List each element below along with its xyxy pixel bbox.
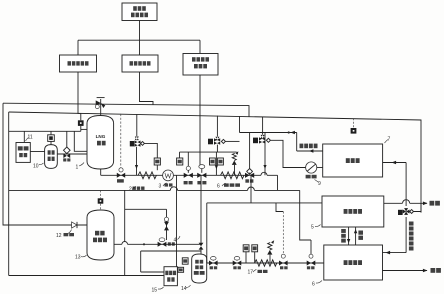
vessel: LNG storage tank xyxy=(87,116,114,170)
label: power generation xyxy=(431,268,441,273)
svg-text:11: 11 xyxy=(28,135,33,141)
wire: valve D feed line xyxy=(300,190,311,254)
wire: dashed drop to buffer tank instrument xyxy=(100,190,102,198)
wire: gauge to tank dome xyxy=(50,141,52,145)
svg-text:1: 1 xyxy=(76,165,79,171)
svg-text:6: 6 xyxy=(312,282,315,288)
instrument: compressor gauge A xyxy=(182,258,188,264)
valve: LNG outlet control valve V1 xyxy=(117,168,125,183)
wire: BOG left downcomer to buffer tank xyxy=(3,103,87,225)
label 6 xyxy=(312,281,322,288)
label 11 xyxy=(26,135,33,142)
label 7 xyxy=(385,137,391,144)
wire: LNG feed drop from pipe to CNG tank xyxy=(200,175,202,255)
valve: buffer outlet control valve V6 xyxy=(158,238,175,247)
heat exchanger: vaporizer coil 2 (water bath) xyxy=(221,172,244,179)
label: generator cooling water (vertical) xyxy=(409,222,414,251)
arrow: heating supply out xyxy=(422,202,428,204)
wire: LNG tank bottom outlet to pipe xyxy=(100,169,102,176)
wire: manifold drop to pipe with arrow xyxy=(215,152,218,175)
svg-text:14: 14 xyxy=(181,286,187,292)
wire: hot water branch drop with arrow to pipe xyxy=(263,133,266,176)
wire: controller bus horizontal xyxy=(78,39,200,41)
label 6-water bath vaporizer xyxy=(217,183,240,189)
pump: LNG booster pump P1 xyxy=(163,170,174,181)
valve: emergency shutoff valve V3 (safety controller) xyxy=(197,165,206,185)
wire hop: over gas-to-heating riser xyxy=(248,187,255,190)
valve: CNG tank inlet valve V7 xyxy=(199,243,204,250)
svg-text:17: 17 xyxy=(248,270,254,276)
label 2-vaporizer xyxy=(129,187,145,193)
label 14 xyxy=(181,285,191,292)
wire: compressor suction riser from pipe xyxy=(176,175,178,266)
instrument: gas-source actuator pilot (filled) xyxy=(78,120,84,126)
wire: compressor discharge line xyxy=(141,250,201,252)
box: temperature controller xyxy=(122,55,158,72)
svg-text:13: 13 xyxy=(75,255,81,261)
instrument: unloading tank gauge xyxy=(48,135,55,142)
box: generator set xyxy=(324,245,383,280)
wire: assembly1 diamond link to riser xyxy=(225,140,239,142)
wire: natural gas line between boxes xyxy=(347,227,350,245)
label: natural gas (vertical) xyxy=(341,229,346,243)
valve assembly: gas line control station PV1 xyxy=(208,116,225,145)
vessel: CNG purification booster tank xyxy=(192,254,207,283)
wire: bottom return line to compressor xyxy=(9,275,164,277)
valve: tank relief/vent valve xyxy=(95,98,105,109)
wire: pump discharge to tank xyxy=(317,167,323,169)
box: gas source controller xyxy=(60,55,97,72)
check valve: BOG inlet check xyxy=(72,222,77,228)
wire: gauge riser 2 xyxy=(254,252,256,263)
valve: chain upper valve V5 xyxy=(164,217,169,230)
wire: pneumatic valve riser xyxy=(66,131,68,147)
wire: temperature controller signal path xyxy=(140,72,154,105)
wire: branch manifold y209 xyxy=(125,208,167,210)
svg-text:7: 7 xyxy=(388,137,391,143)
label 13 xyxy=(75,255,87,261)
safety valve: vaporizer relief RV1 xyxy=(232,151,239,175)
safety valve: CNG relief RV2 xyxy=(267,240,274,263)
wire: header drop to CNG pipe xyxy=(206,203,208,263)
valve assembly: heating temper valve PV3 xyxy=(398,208,414,215)
valve: vaporizer outlet pneumatic valve V4 xyxy=(245,169,254,183)
wire: left main riser xyxy=(8,112,10,276)
wire: cooling water riser xyxy=(405,163,407,253)
svg-text:LNG: LNG xyxy=(96,134,106,139)
label 4 xyxy=(174,236,181,244)
wire hop: pipe over drop line xyxy=(261,172,267,175)
wire: assembly0 diamond to instrument branch xyxy=(144,143,157,158)
wire: heating supply line with hop xyxy=(384,202,422,204)
instrument: gauge pair PI4 xyxy=(218,158,224,165)
wire: pneumatic signal (dashed) to LNG outlet valve xyxy=(120,114,122,168)
instrument: compressor gauge B xyxy=(178,267,184,272)
label 5 xyxy=(311,225,321,231)
wire: tank left fill line xyxy=(74,131,87,151)
instrument: pressure gauge PI1 xyxy=(154,158,160,165)
wire: gauge riser 1 xyxy=(245,252,247,263)
wire: cargo hold to unloading tank xyxy=(30,151,44,153)
wire: control assembly 0 output to pipe with arrow xyxy=(135,147,138,176)
wire: hot water supply branch y132.5 xyxy=(240,116,323,151)
wire: valve chain riser xyxy=(166,209,168,240)
valve: CNG valve D xyxy=(307,254,316,269)
svg-text:12: 12 xyxy=(56,233,62,239)
wire hop: over compressor feed riser xyxy=(170,187,177,191)
wire: gas-source controller stub xyxy=(77,40,79,55)
wire: compressor discharge riser xyxy=(141,251,164,272)
arrow: hot water flow left xyxy=(291,131,295,134)
svg-text:2: 2 xyxy=(129,187,132,193)
wire: unloading tank outlet xyxy=(57,153,87,155)
wire: power output line xyxy=(383,269,428,273)
wire: pilot down to distribution line xyxy=(80,126,82,131)
wire: assembly2 output to pump suction xyxy=(270,140,305,167)
valve assembly: hot-water control station PV2 xyxy=(253,117,270,144)
vessel: pre-buffer tank xyxy=(87,210,114,260)
wire: dashed drop to tank thermostat xyxy=(353,118,355,128)
box: adaptive control system (top) xyxy=(122,3,157,21)
wire: gas source controller signal drop xyxy=(78,72,81,120)
label: flue gas (vertical) xyxy=(358,231,363,240)
svg-text:5: 5 xyxy=(311,225,314,231)
wire: long instrument-air header line B xyxy=(9,112,421,213)
label 9 xyxy=(315,180,322,188)
svg-text:9: 9 xyxy=(318,181,321,187)
wire: buffer tank gas line y244 with hop xyxy=(114,243,201,245)
wire hop: over LNG feed branch xyxy=(122,242,128,245)
wire: LNG feed branch from y190 xyxy=(124,190,126,275)
wire: cargo-hold box riser xyxy=(23,131,25,142)
label 17-heater xyxy=(248,269,268,275)
valve assembly: LNG line control valve station PV0 xyxy=(130,114,145,147)
wire: boiler feed line xyxy=(250,175,252,203)
svg-text:15: 15 xyxy=(152,288,158,294)
box: hot water tank xyxy=(323,144,383,177)
label 3-pump xyxy=(159,183,173,190)
node: hot water junction xyxy=(288,131,290,133)
svg-text:3: 3 xyxy=(159,184,162,190)
valve: pump discharge valve V2 xyxy=(184,166,193,184)
wire: small tank instrument stub upper xyxy=(50,131,52,135)
wire: pilot to buffer tank dome xyxy=(100,204,102,211)
instrument: gauge pair PI3 xyxy=(210,158,216,165)
label: hot water circulation text xyxy=(300,144,318,149)
box: safety protection controller xyxy=(183,54,218,76)
wire: flue gas line between boxes xyxy=(354,227,357,245)
instrument: gauge TI2 xyxy=(177,158,183,165)
wire: generator cooling outlet xyxy=(383,251,407,255)
wire: LNG tank top vent riser xyxy=(100,99,102,116)
svg-text:10: 10 xyxy=(33,164,39,170)
wire: safety controller stub xyxy=(199,40,201,53)
vessel: unloading buffer tank xyxy=(45,145,58,169)
label 12 check valve xyxy=(56,230,74,240)
pump: hot water circulation pump xyxy=(306,162,317,179)
wire: assembly1 lower manifold xyxy=(180,145,237,153)
wire: CNG distribution pipe xyxy=(207,262,324,264)
wire: temper valve diamond to supply riser xyxy=(414,203,422,211)
wire: riser to vaporizer water valve xyxy=(249,133,251,169)
wire: pipe end riser down xyxy=(277,175,279,190)
heat exchanger: vaporizer coil 1 xyxy=(138,172,156,179)
wire: main vaporizer pipe xyxy=(101,174,278,176)
wire: manifold drop to gauge TI xyxy=(179,152,181,158)
heat exchanger: CNG heater coil xyxy=(255,260,277,266)
label: heating supply xyxy=(430,201,440,206)
wire: manifold drop to valve V2 actuator xyxy=(187,152,189,166)
instrument: CNG gauge 2 xyxy=(252,245,258,252)
box: waste heat boiler xyxy=(322,196,384,227)
wire: gauge stub to pipe xyxy=(156,165,158,170)
wire: cooling return into hot water tank xyxy=(383,161,407,165)
wire: adaptive system riser xyxy=(139,21,141,56)
wire: valve C pilot line (dashed) xyxy=(276,203,283,212)
instrument: CNG gauge 1 xyxy=(243,245,249,252)
label 10 xyxy=(33,163,44,170)
svg-text:6: 6 xyxy=(217,184,220,190)
instrument: buffer tank pressure pilot (filled) xyxy=(98,198,104,203)
valve: CNG valve C xyxy=(279,254,288,269)
wire: long upper line A (BOG header) xyxy=(3,103,249,117)
wire: safety controller drop to shutoff valve xyxy=(199,75,201,165)
wire: BOG header line y190 with hops xyxy=(9,189,300,191)
box: processing ship cargo hold xyxy=(16,143,30,163)
instrument: hot water tank thermostat (filled) xyxy=(351,128,357,134)
valve: pneumatic unloading valve with diamond actuator xyxy=(63,147,70,162)
wire: instrument stub into LNG tank xyxy=(81,128,87,130)
box: first stage compressor xyxy=(164,267,177,286)
wire hop: over cooling riser xyxy=(403,200,410,204)
valve: CNG valve B xyxy=(233,257,242,270)
wire: gas supply header to boiler xyxy=(207,202,322,204)
arrow: return into tank xyxy=(309,149,313,152)
valve: CNG valve A xyxy=(209,257,218,270)
node: junction dot xyxy=(143,243,145,245)
wire: left distribution line y131 xyxy=(9,130,81,132)
label 1 xyxy=(76,163,85,171)
label 15 xyxy=(152,287,164,294)
